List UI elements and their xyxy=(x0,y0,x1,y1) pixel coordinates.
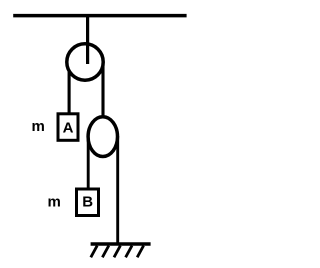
rope: upper pulley to lower pulley xyxy=(101,62,104,118)
floor line xyxy=(91,242,151,246)
svg-text:A: A xyxy=(63,119,74,136)
rope: lower pulley to block B xyxy=(87,136,90,189)
support link ceiling to P1 axle xyxy=(86,14,89,64)
floor hatch 4 xyxy=(126,246,132,258)
rope: upper pulley to block A xyxy=(68,62,71,114)
block B xyxy=(77,189,99,216)
floor hatch 2 xyxy=(102,246,108,258)
svg-text:m: m xyxy=(48,194,61,211)
pulley P2 (movable, lower) xyxy=(88,117,117,157)
floor hatch 3 xyxy=(114,246,120,258)
floor hatch 5 xyxy=(137,246,143,258)
svg-text:B: B xyxy=(82,193,93,210)
rope: lower pulley to floor anchor xyxy=(116,136,119,244)
pulley P1 (fixed, upper) xyxy=(67,44,103,80)
floor hatch 1 xyxy=(91,246,97,258)
ceiling xyxy=(13,14,186,18)
svg-text:m: m xyxy=(32,118,45,135)
block A xyxy=(58,114,78,141)
